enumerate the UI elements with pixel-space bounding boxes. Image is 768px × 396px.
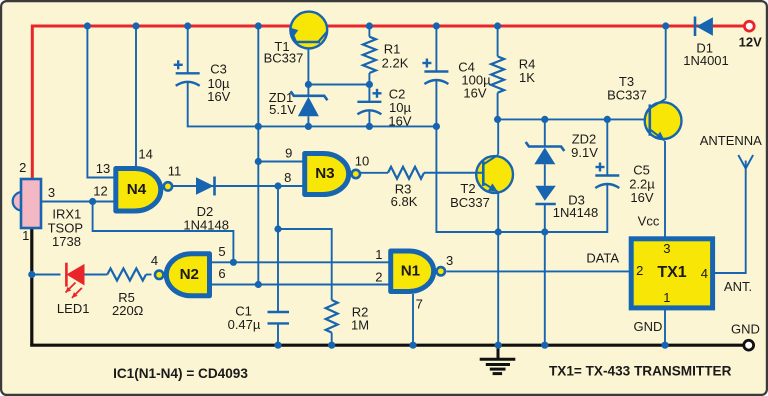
svg-text:1: 1 (375, 247, 382, 262)
svg-text:12: 12 (93, 184, 107, 199)
svg-text:ANT.: ANT. (724, 279, 752, 294)
svg-text:2: 2 (375, 269, 382, 284)
svg-text:6: 6 (218, 266, 225, 281)
svg-text:IRX1: IRX1 (52, 207, 81, 222)
svg-text:TX1= TX-433 TRANSMITTER: TX1= TX-433 TRANSMITTER (549, 364, 732, 379)
svg-text:2.2K: 2.2K (382, 56, 409, 71)
svg-text:1M: 1M (351, 318, 369, 333)
svg-text:13: 13 (96, 161, 110, 176)
svg-text:N1: N1 (401, 263, 421, 280)
svg-text:LED1: LED1 (57, 301, 90, 316)
svg-text:3: 3 (446, 253, 453, 268)
svg-text:C3: C3 (210, 62, 227, 77)
svg-text:1: 1 (22, 228, 29, 243)
svg-text:3: 3 (663, 241, 670, 256)
svg-text:7: 7 (416, 296, 423, 311)
svg-text:BC337: BC337 (264, 51, 304, 66)
svg-text:BC337: BC337 (450, 195, 490, 210)
svg-text:16V: 16V (630, 190, 653, 205)
svg-text:N2: N2 (180, 266, 199, 283)
svg-text:1738: 1738 (52, 234, 81, 249)
svg-text:N3: N3 (315, 165, 334, 182)
svg-text:9.1V: 9.1V (571, 145, 598, 160)
svg-text:IC1(N1-N4) = CD4093: IC1(N1-N4) = CD4093 (113, 366, 248, 381)
svg-text:12V: 12V (739, 34, 762, 49)
svg-text:16V: 16V (463, 86, 486, 101)
svg-text:16V: 16V (388, 114, 411, 129)
svg-text:Vcc: Vcc (638, 213, 660, 228)
svg-text:ANTENNA: ANTENNA (700, 133, 762, 148)
svg-text:C5: C5 (633, 163, 650, 178)
svg-text:6.8K: 6.8K (391, 194, 418, 209)
svg-text:11: 11 (168, 164, 182, 179)
svg-text:220Ω: 220Ω (112, 303, 144, 318)
svg-text:3: 3 (48, 185, 55, 200)
svg-text:10: 10 (355, 154, 369, 169)
svg-text:GND: GND (731, 322, 760, 337)
svg-text:1K: 1K (519, 70, 535, 85)
svg-text:GND: GND (634, 319, 663, 334)
svg-text:DATA: DATA (586, 250, 619, 265)
svg-text:TX1: TX1 (657, 264, 686, 281)
svg-text:16V: 16V (207, 89, 230, 104)
svg-text:1N4148: 1N4148 (553, 205, 599, 220)
svg-text:1: 1 (663, 290, 670, 305)
svg-text:8: 8 (284, 170, 291, 185)
svg-text:4: 4 (701, 266, 708, 281)
svg-text:1N4001: 1N4001 (683, 53, 729, 68)
svg-text:5.1V: 5.1V (269, 102, 296, 117)
svg-text:1N4148: 1N4148 (183, 218, 229, 233)
svg-text:4: 4 (151, 253, 158, 268)
svg-text:N4: N4 (127, 181, 147, 198)
svg-text:T2: T2 (460, 181, 475, 196)
svg-text:9: 9 (285, 145, 292, 160)
svg-text:2: 2 (19, 160, 26, 175)
svg-text:R1: R1 (384, 42, 401, 57)
svg-text:BC337: BC337 (607, 88, 647, 103)
svg-text:14: 14 (138, 147, 152, 162)
svg-text:5: 5 (218, 244, 225, 259)
svg-text:2: 2 (636, 263, 643, 278)
svg-text:0.47µ: 0.47µ (228, 317, 261, 332)
